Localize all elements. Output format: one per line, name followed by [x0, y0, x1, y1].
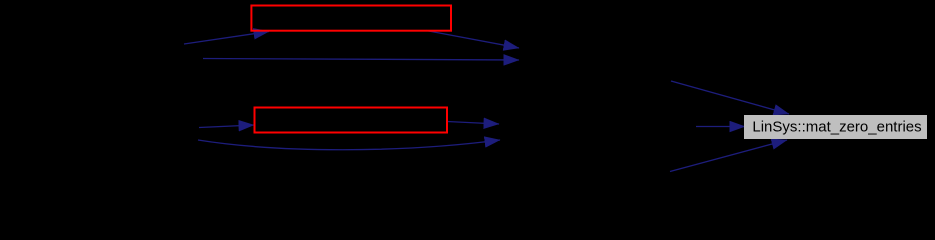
svg-text:LinSys::mat_zero_entries: LinSys::mat_zero_entries: [752, 119, 921, 136]
